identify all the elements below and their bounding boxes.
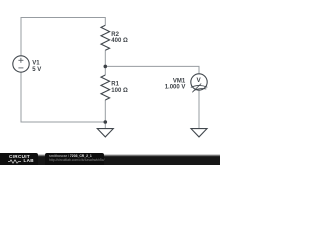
- CircuitLab logo box: [0, 153, 38, 165]
- watermark attribution box: [45, 153, 105, 165]
- wire top: V1 top to R2 top: [21, 18, 105, 56]
- watermark bar: [0, 154, 220, 165]
- wire bottom: V1 bottom to ground node: [21, 72, 105, 122]
- wire node A to voltmeter: [105, 66, 199, 74]
- svg-text:R1: R1: [111, 82, 119, 88]
- svg-text:100 Ω: 100 Ω: [111, 88, 128, 94]
- logo text CIRCUIT: [9, 154, 39, 159]
- node B junction dot (ground node): [104, 120, 108, 124]
- ground (right, below voltmeter): [191, 129, 207, 137]
- voltmeter VM1: [191, 74, 208, 93]
- wire voltmeter bottom to ground: [198, 90, 200, 129]
- voltage source V1: [13, 56, 29, 72]
- ground (left, below node B): [97, 129, 113, 137]
- watermark user line: [49, 154, 92, 158]
- wire between R2 and R1: [104, 50, 106, 75]
- resistor R2: [101, 25, 110, 50]
- resistor R1: [101, 75, 110, 100]
- logo zigzag: [8, 159, 24, 164]
- wire R1 bottom to ground: [104, 100, 106, 129]
- svg-text:5 V: 5 V: [32, 67, 41, 73]
- node A junction dot (between R1 and R2): [104, 65, 108, 69]
- svg-text:R2: R2: [111, 32, 119, 38]
- logo text LAB: [24, 158, 34, 163]
- svg-text:1.000 V: 1.000 V: [165, 84, 186, 90]
- watermark url line: [49, 158, 104, 162]
- svg-text:V1: V1: [32, 61, 40, 67]
- svg-text:400 Ω: 400 Ω: [111, 38, 128, 44]
